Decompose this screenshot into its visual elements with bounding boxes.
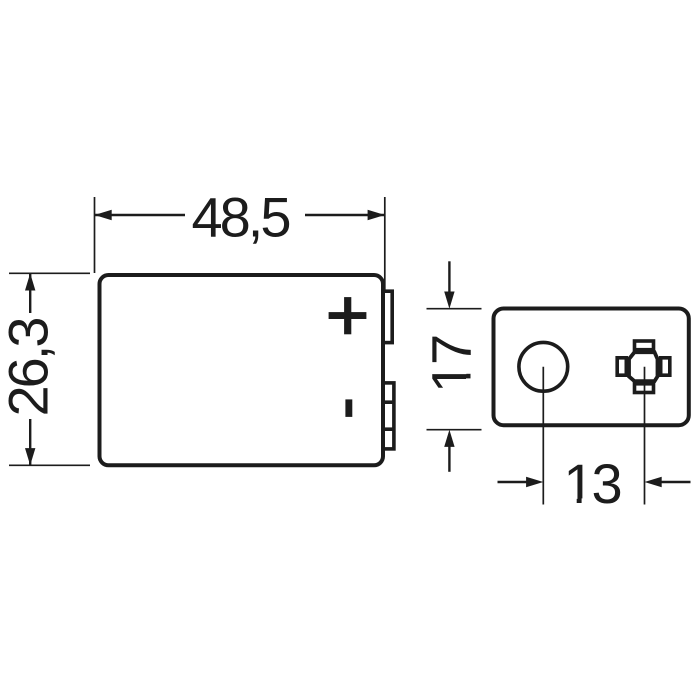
dimension 17 bottom outside arrow xyxy=(444,430,454,472)
svg-text:26,3: 26,3 xyxy=(0,319,59,417)
dimension 48,5 right extension line xyxy=(384,197,386,292)
dimension 17 top extension line xyxy=(427,308,482,310)
negative snap terminal (octagon body) xyxy=(629,352,658,381)
dimension 17 top outside arrow xyxy=(444,261,454,308)
dimension 48,5 line left segment with arrow xyxy=(95,210,186,220)
negative snap terminal right lug xyxy=(661,358,670,375)
dimension 26,3 bottom extension line xyxy=(9,464,90,466)
negative snap terminal left lug xyxy=(617,358,626,375)
negative snap terminal bottom lug xyxy=(635,384,654,393)
svg-text:48,5: 48,5 xyxy=(192,186,290,249)
dimension 26,3 line bottom segment with arrow xyxy=(25,419,35,465)
dimension 26,3 line top segment with arrow xyxy=(25,273,35,313)
dimension 26,3 top extension line xyxy=(9,272,90,274)
plus sign label xyxy=(329,297,367,334)
negative tab divider 2 xyxy=(383,427,394,431)
minus sign label xyxy=(345,399,352,417)
positive terminal tab (front view right edge, top) xyxy=(383,291,392,342)
negative terminal center line xyxy=(644,367,646,505)
battery side view body xyxy=(494,309,689,426)
positive snap terminal (circle) xyxy=(519,342,568,391)
dimension 17 bottom extension line xyxy=(427,429,482,431)
dimension 48,5 line right segment with arrow xyxy=(305,210,385,220)
svg-text:17: 17 xyxy=(420,336,483,393)
negative snap terminal top lug xyxy=(635,341,654,350)
dimension 48,5 left extension line xyxy=(94,197,96,273)
negative tab divider 1 xyxy=(383,400,394,404)
negative terminal tab (front view right edge, bottom) xyxy=(383,383,394,449)
dimension 13 line left segment with arrow xyxy=(498,477,544,487)
dimension 13 line right segment with arrow xyxy=(645,477,691,487)
positive terminal center line xyxy=(542,367,544,505)
battery front view body xyxy=(100,275,384,465)
svg-text:13: 13 xyxy=(563,452,620,515)
